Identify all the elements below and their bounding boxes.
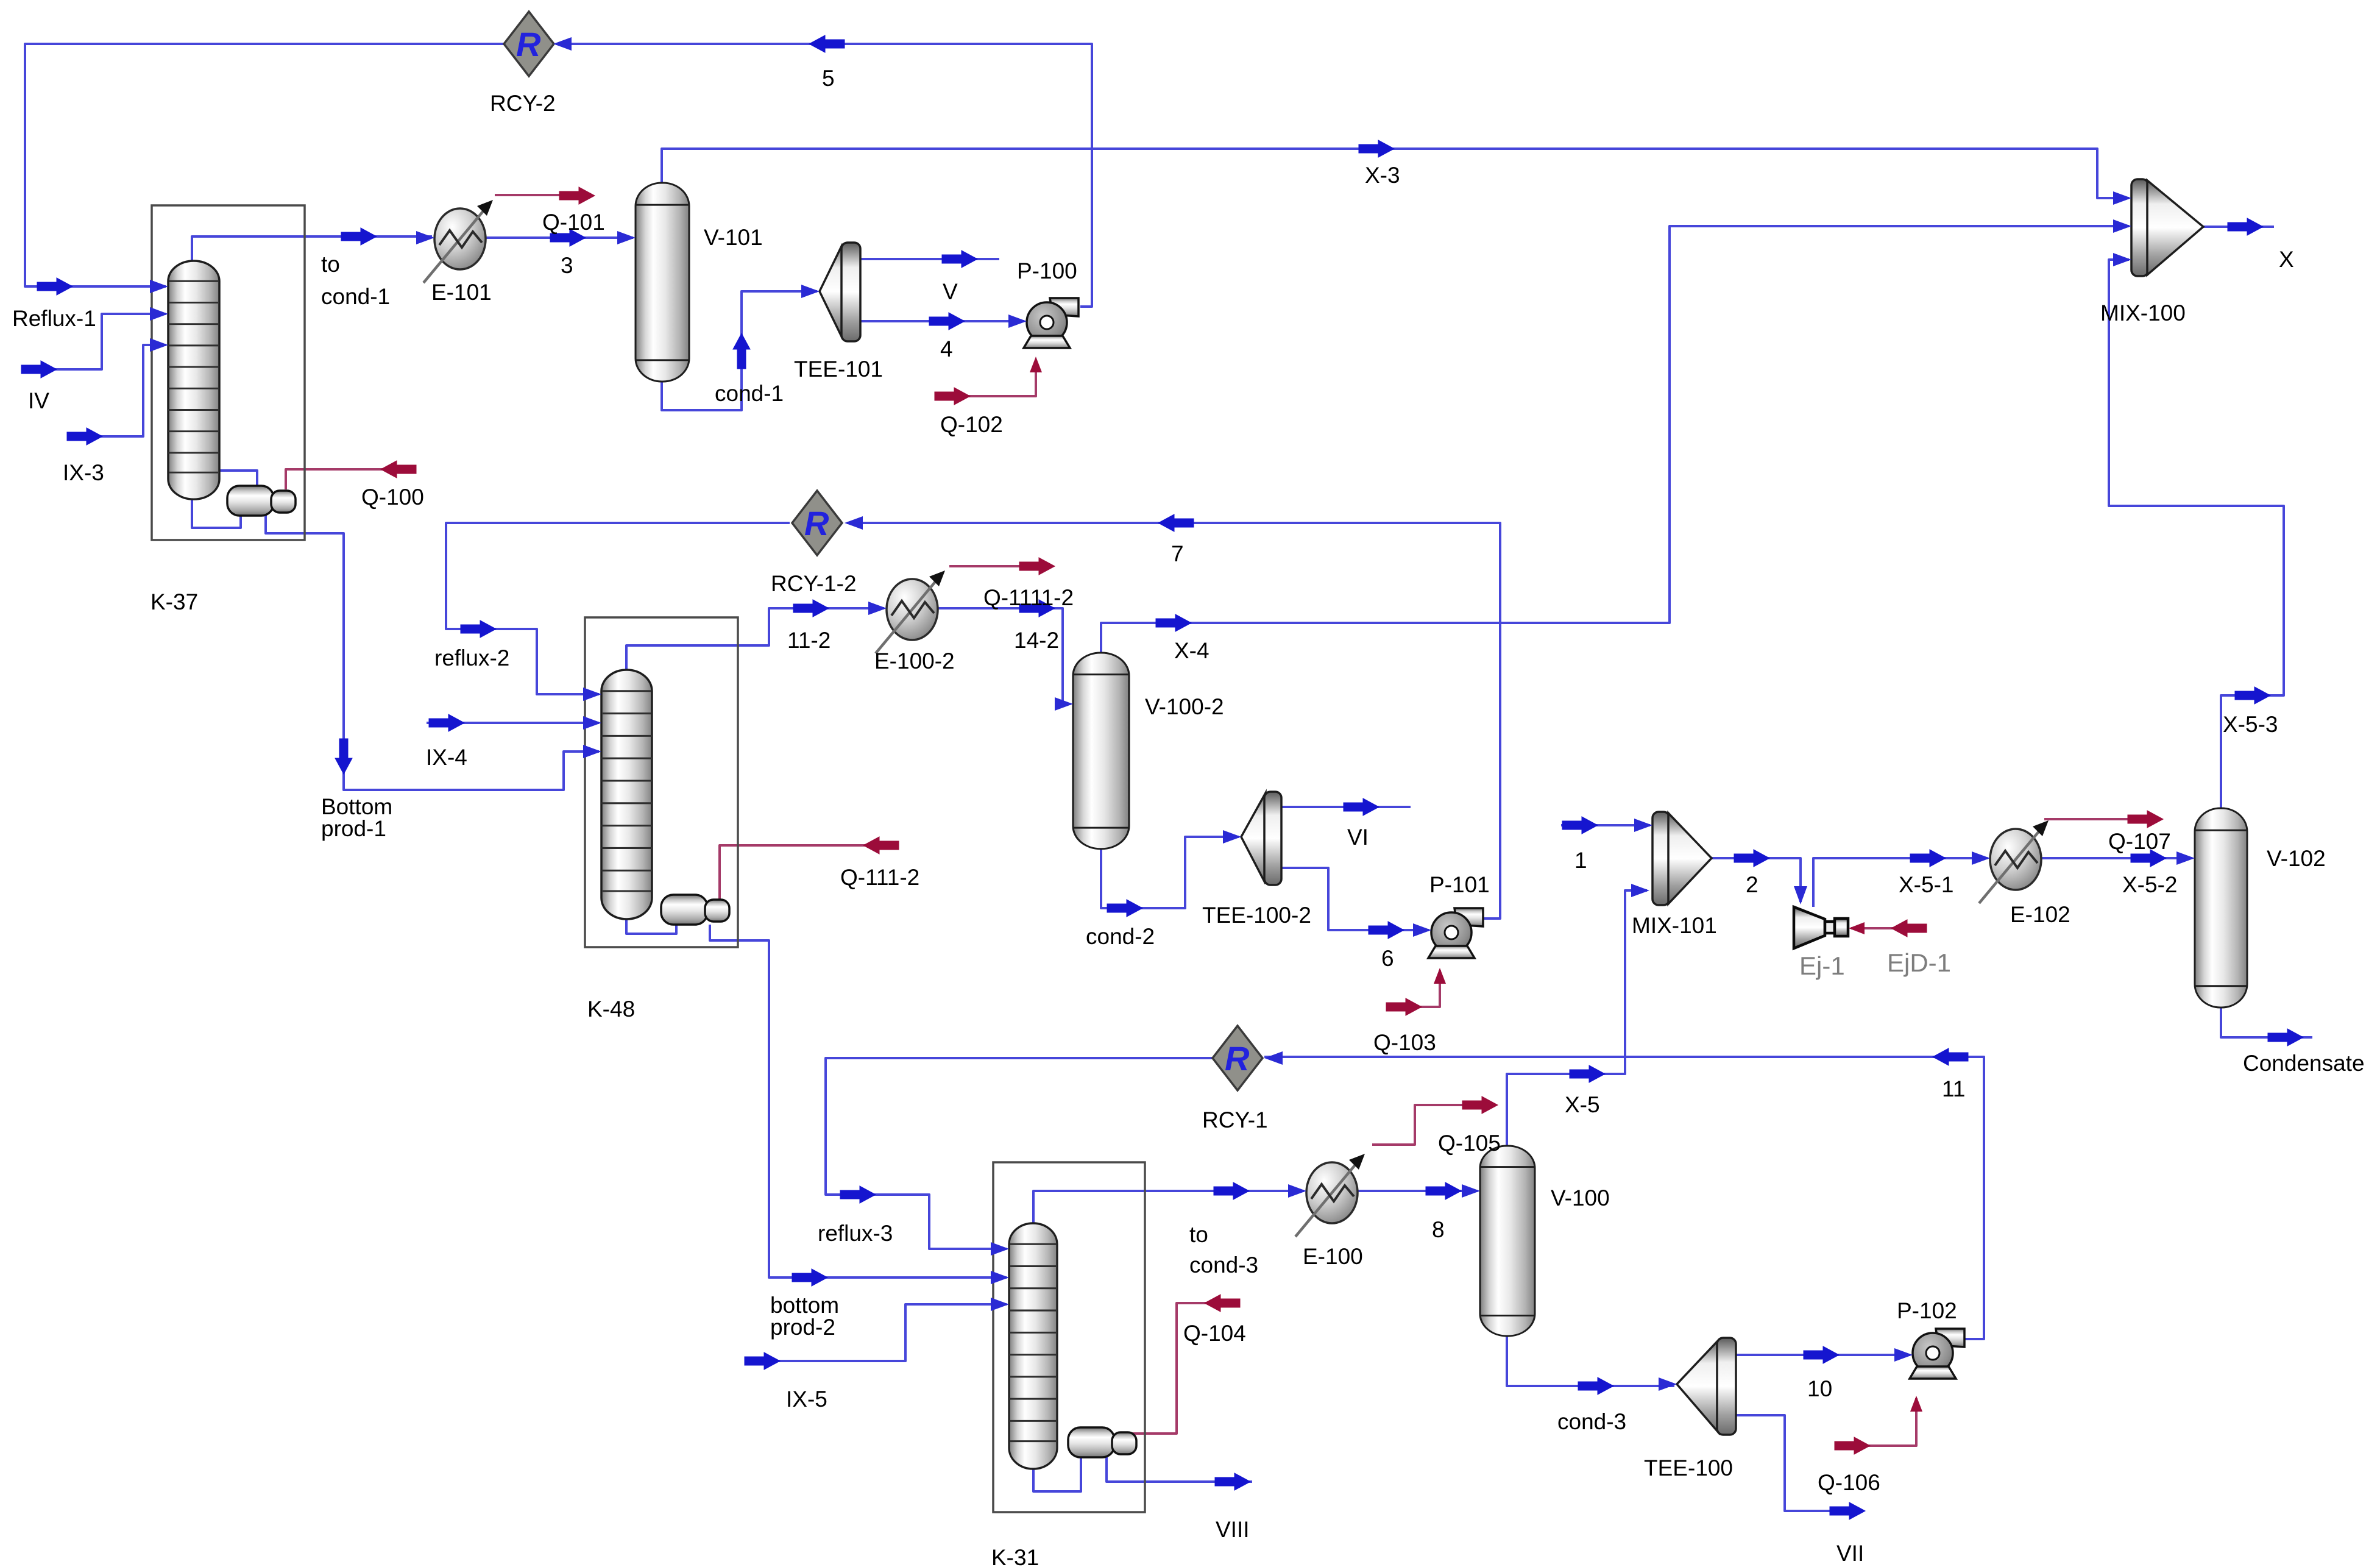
svg-text:X-5-3: X-5-3 <box>2223 712 2278 737</box>
svg-text:MIX-100: MIX-100 <box>2100 300 2186 325</box>
svg-text:RCY-1-2: RCY-1-2 <box>771 571 857 596</box>
svg-text:Q-111-2: Q-111-2 <box>840 865 919 890</box>
svg-text:cond-1: cond-1 <box>321 284 390 309</box>
svg-text:X: X <box>2279 247 2294 272</box>
svg-text:V-102: V-102 <box>2267 846 2326 871</box>
svg-text:11-2: 11-2 <box>787 628 831 653</box>
svg-text:X-3: X-3 <box>1365 163 1400 188</box>
svg-text:VI: VI <box>1347 825 1369 850</box>
svg-text:6: 6 <box>1381 946 1394 971</box>
svg-text:11: 11 <box>1942 1076 1965 1101</box>
svg-text:V: V <box>943 279 958 304</box>
svg-text:Bottom: Bottom <box>321 794 392 819</box>
svg-text:V-100: V-100 <box>1551 1185 1610 1210</box>
svg-text:X-4: X-4 <box>1174 638 1209 663</box>
svg-text:EjD-1: EjD-1 <box>1887 948 1951 977</box>
svg-text:Q-1111-2: Q-1111-2 <box>983 585 1074 610</box>
svg-text:RCY-1: RCY-1 <box>1202 1107 1268 1132</box>
svg-text:prod-2: prod-2 <box>770 1315 835 1340</box>
svg-text:E-100: E-100 <box>1303 1244 1363 1269</box>
svg-text:X-5-2: X-5-2 <box>2122 872 2177 897</box>
svg-text:reflux-3: reflux-3 <box>818 1221 893 1246</box>
svg-text:Reflux-1: Reflux-1 <box>12 306 96 331</box>
svg-text:cond-2: cond-2 <box>1086 924 1155 949</box>
svg-text:10: 10 <box>1807 1376 1832 1401</box>
svg-text:4: 4 <box>940 336 953 361</box>
svg-text:TEE-101: TEE-101 <box>794 357 883 382</box>
svg-text:P-101: P-101 <box>1429 872 1490 897</box>
svg-text:Q-104: Q-104 <box>1183 1321 1246 1346</box>
svg-text:IX-4: IX-4 <box>426 745 467 770</box>
svg-text:VIII: VIII <box>1216 1517 1250 1542</box>
svg-text:to: to <box>1189 1222 1208 1247</box>
svg-text:Q-105: Q-105 <box>1438 1131 1501 1156</box>
svg-text:K-31: K-31 <box>991 1545 1039 1567</box>
svg-text:7: 7 <box>1171 541 1184 566</box>
svg-text:P-100: P-100 <box>1017 258 1077 283</box>
svg-text:IV: IV <box>28 388 49 413</box>
svg-text:8: 8 <box>1432 1217 1445 1242</box>
svg-text:cond-3: cond-3 <box>1557 1409 1626 1434</box>
svg-text:VII: VII <box>1836 1541 1864 1566</box>
svg-text:Q-102: Q-102 <box>940 412 1003 437</box>
svg-text:to: to <box>321 252 340 277</box>
svg-text:Q-107: Q-107 <box>2108 829 2171 854</box>
svg-text:Q-103: Q-103 <box>1373 1030 1436 1055</box>
svg-text:K-48: K-48 <box>587 997 635 1022</box>
svg-text:P-102: P-102 <box>1897 1298 1957 1323</box>
svg-text:V-101: V-101 <box>704 225 763 250</box>
svg-text:K-37: K-37 <box>151 589 198 614</box>
svg-text:bottom: bottom <box>770 1293 839 1318</box>
svg-text:5: 5 <box>822 66 835 91</box>
svg-text:X-5-1: X-5-1 <box>1899 872 1953 897</box>
svg-text:Q-101: Q-101 <box>542 210 605 235</box>
svg-text:1: 1 <box>1574 848 1587 873</box>
svg-text:MIX-101: MIX-101 <box>1632 913 1717 938</box>
svg-text:Q-106: Q-106 <box>1818 1470 1880 1495</box>
svg-text:TEE-100: TEE-100 <box>1644 1455 1733 1480</box>
svg-text:14-2: 14-2 <box>1014 628 1059 653</box>
svg-text:IX-5: IX-5 <box>786 1387 827 1412</box>
svg-text:reflux-2: reflux-2 <box>434 645 509 670</box>
svg-text:3: 3 <box>561 253 573 278</box>
svg-text:Ej-1: Ej-1 <box>1799 951 1845 980</box>
svg-text:cond-3: cond-3 <box>1189 1253 1258 1277</box>
svg-text:E-100-2: E-100-2 <box>874 648 955 673</box>
svg-text:Condensate: Condensate <box>2243 1051 2365 1076</box>
svg-text:X-5: X-5 <box>1565 1092 1600 1117</box>
svg-text:RCY-2: RCY-2 <box>490 91 556 116</box>
svg-text:2: 2 <box>1746 872 1758 897</box>
svg-text:prod-1: prod-1 <box>321 816 386 841</box>
svg-text:E-101: E-101 <box>431 280 492 305</box>
svg-text:cond-1: cond-1 <box>715 381 784 406</box>
svg-text:E-102: E-102 <box>2010 902 2070 927</box>
svg-text:TEE-100-2: TEE-100-2 <box>1202 903 1311 928</box>
svg-text:IX-3: IX-3 <box>63 460 104 485</box>
svg-text:V-100-2: V-100-2 <box>1145 694 1224 719</box>
svg-text:Q-100: Q-100 <box>361 485 424 510</box>
